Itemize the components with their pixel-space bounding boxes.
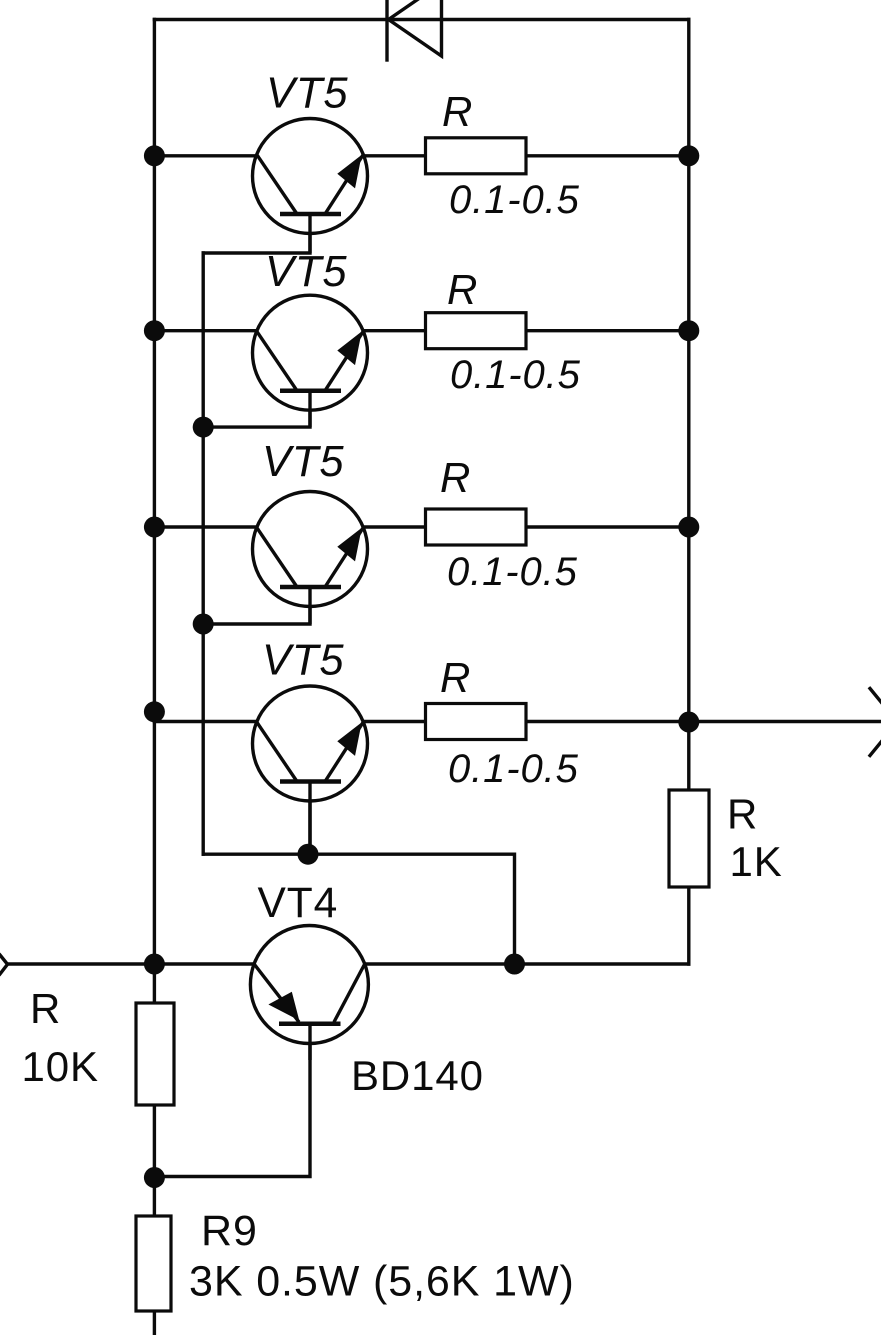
node dot base bus row2 [193, 417, 214, 438]
resistor R row4 [426, 704, 527, 740]
svg-text:R: R [440, 654, 471, 701]
svg-text:VT4: VT4 [258, 880, 339, 927]
wire input [8, 962, 255, 965]
node dot right row3 [678, 517, 699, 538]
resistor R row1 [426, 138, 527, 174]
svg-text:1K: 1K [730, 838, 783, 885]
svg-text:R: R [442, 88, 473, 135]
node dot left row1 [144, 145, 165, 166]
resistor R row3 [426, 509, 527, 545]
svg-text:R9: R9 [201, 1207, 258, 1255]
resistor R row2 [426, 313, 527, 349]
diode VD1 cathode bar [385, 0, 388, 60]
svg-text:VT5: VT5 [262, 637, 344, 685]
svg-text:VT5: VT5 [265, 248, 347, 296]
svg-text:VT5: VT5 [262, 438, 344, 486]
svg-text:0.1-0.5: 0.1-0.5 [450, 353, 581, 397]
node dot right row4 [678, 712, 699, 733]
input arrow [0, 955, 8, 974]
svg-text:0.1-0.5: 0.1-0.5 [449, 178, 580, 222]
node dot right row1 [678, 145, 699, 166]
wire VT4 base [154, 1024, 310, 1177]
transistor VT4 [250, 926, 368, 1061]
wire base bus vertical [201, 253, 204, 854]
transistor VT5 #2 [253, 295, 368, 427]
wire left bus below R9 [153, 1311, 156, 1335]
svg-text:VT5: VT5 [266, 70, 348, 118]
wire left bus upper [153, 20, 156, 1004]
node dot left row3 [144, 517, 165, 538]
svg-text:R: R [447, 266, 478, 313]
resistor R 10K [136, 1003, 174, 1105]
wire row 4 and output [154, 720, 881, 723]
svg-text:10K: 10K [22, 1043, 99, 1090]
wire base VT5-3 [203, 586, 310, 624]
wire base VT5-2 [203, 391, 310, 427]
wire right bus below R1K [687, 887, 690, 964]
resistor R 1K [669, 790, 709, 887]
transistor VT5 #3 [253, 492, 368, 625]
node dot right row2 [678, 320, 699, 341]
svg-text:R: R [727, 791, 758, 838]
wire top rail [154, 18, 688, 21]
wire right bus upper [687, 20, 690, 791]
node dot base row4 [298, 844, 319, 865]
svg-text:BD140: BD140 [351, 1052, 484, 1099]
node dot left row2 [144, 320, 165, 341]
output arrow [870, 689, 881, 756]
svg-text:0.1-0.5: 0.1-0.5 [448, 747, 579, 791]
node dot left VT4 row [144, 954, 165, 975]
wire row 3 [154, 525, 688, 528]
node dot left row4 [144, 701, 165, 722]
svg-text:R: R [440, 454, 471, 501]
svg-text:0.1-0.5: 0.1-0.5 [447, 550, 578, 594]
node dot base bus row3 [193, 614, 214, 635]
wire VT4 collector row [255, 962, 689, 965]
svg-text:3K 0.5W (5,6K 1W): 3K 0.5W (5,6K 1W) [189, 1258, 575, 1306]
transistor VT5 #1 [253, 119, 368, 254]
diode VD1 triangle [389, 0, 442, 56]
wire base row to collector node [203, 854, 514, 964]
wire row 1 [154, 154, 688, 157]
resistor R9 [136, 1216, 171, 1311]
svg-text:R: R [30, 985, 61, 1032]
node dot collector node [504, 954, 525, 975]
wire base VT5-4 [308, 782, 311, 854]
transistor VT5 #4 [253, 686, 368, 854]
wire base VT5-1 [203, 216, 310, 253]
node dot left base return [144, 1167, 165, 1188]
wire row 2 [154, 329, 688, 332]
wire left bus between R10K and R9 [153, 1105, 156, 1216]
